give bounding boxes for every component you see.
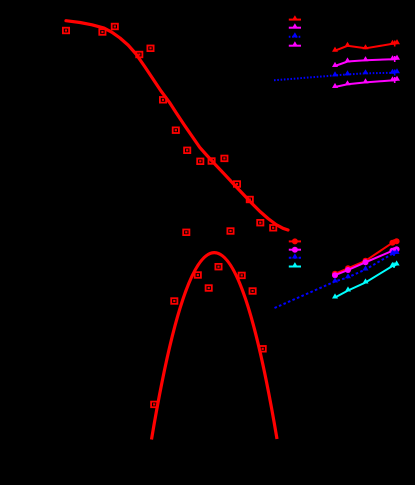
lower panel: red parabolic fit curve (152, 253, 278, 440)
middle-right inset: magenta series (335, 249, 397, 275)
main panel: red sigmoid fit curve (66, 21, 288, 230)
middle-right inset: red series (335, 241, 397, 274)
lower panel: parabola data points (open squares with center dots) (151, 264, 266, 407)
top-right inset: magenta A series (line with triangle markers) (335, 59, 397, 66)
top-right inset legend (289, 15, 301, 20)
middle-right inset: blue series (275, 253, 397, 308)
top-right inset: magenta B series (line with triangle markers) (335, 80, 397, 87)
top-right inset: red series (line with triangle markers) (335, 43, 397, 51)
top-right inset: blue series (line with triangle markers) (274, 72, 397, 80)
main panel: sigmoid data points (open squares with center dots) (63, 24, 276, 235)
middle-right inset legend (289, 238, 301, 244)
middle-right inset: cyan series (335, 265, 397, 298)
